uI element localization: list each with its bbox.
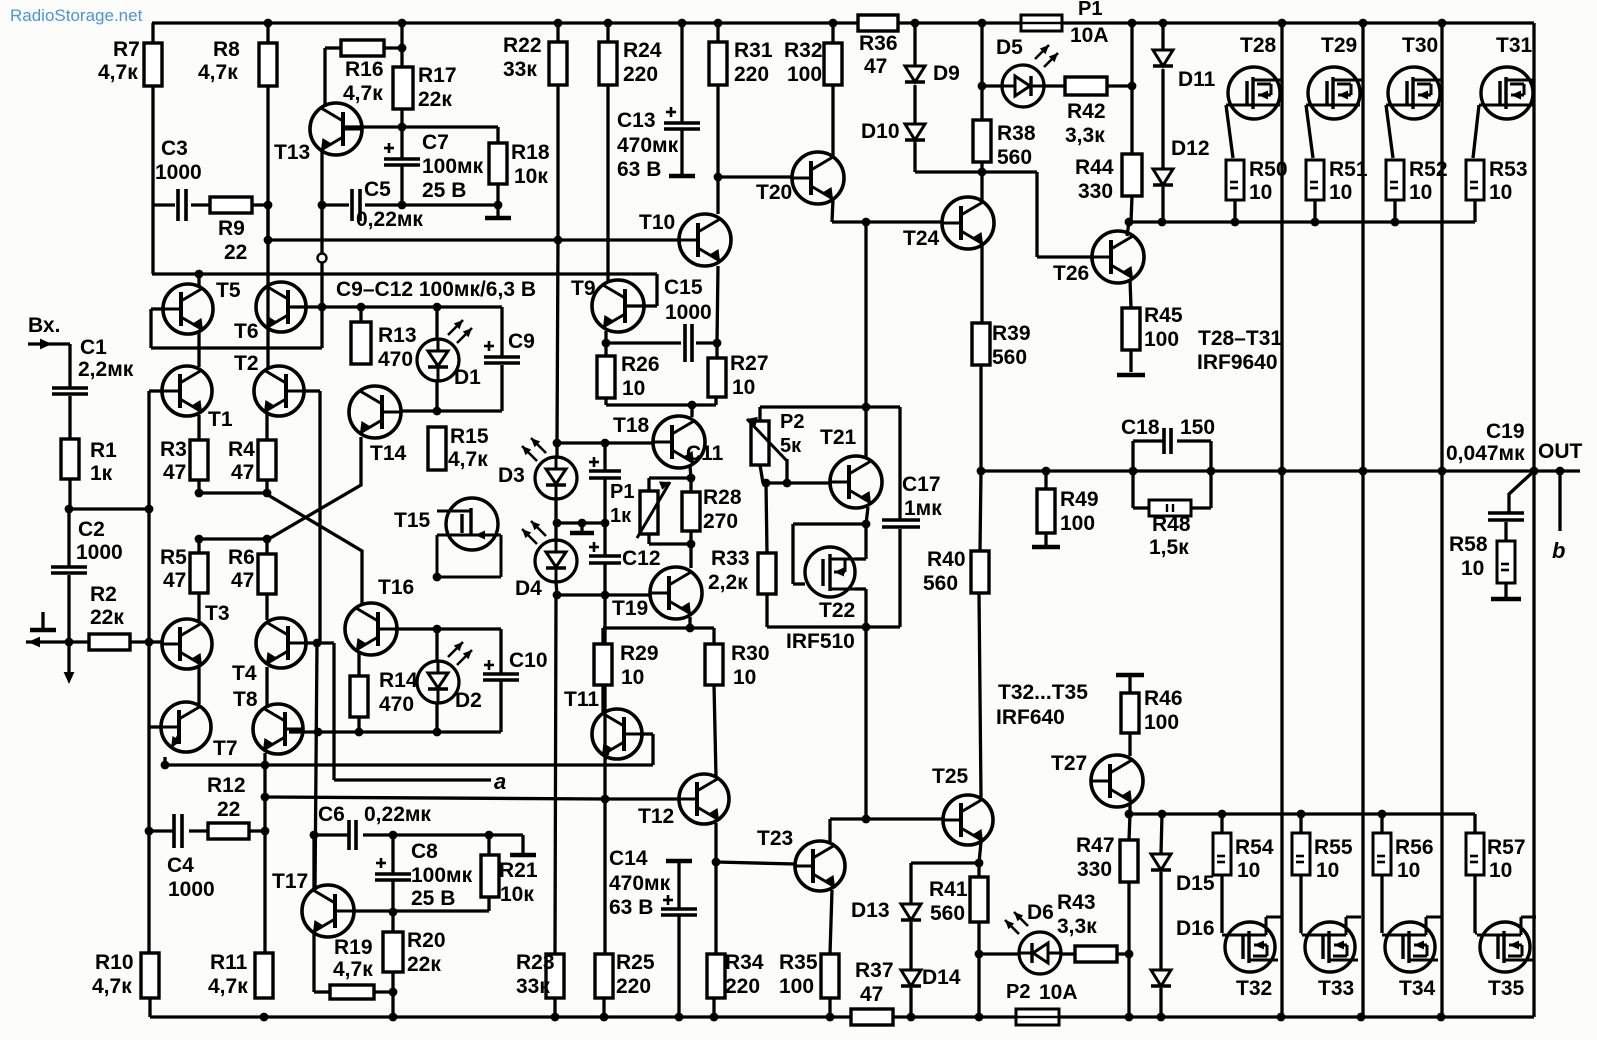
label 22 bbox=[224, 241, 247, 264]
svg-text:1000: 1000 bbox=[168, 878, 215, 901]
wire T13 emitter drop bbox=[320, 151, 323, 205]
wire R19 right lead bbox=[374, 990, 393, 993]
svg-text:T4: T4 bbox=[232, 662, 257, 685]
junction at 1162,222 bbox=[1158, 218, 1167, 227]
svg-text:R4: R4 bbox=[228, 438, 255, 461]
wire T12 base wire bbox=[605, 797, 678, 800]
label 560 bbox=[923, 572, 958, 595]
svg-text:R7: R7 bbox=[113, 38, 140, 61]
label R49 bbox=[1060, 488, 1099, 511]
svg-text:T11: T11 bbox=[564, 688, 599, 711]
wire R44 to gate node bbox=[1131, 196, 1132, 222]
wire R29 to T11 collector bbox=[601, 685, 604, 712]
label 10 bbox=[622, 377, 645, 400]
label 220 bbox=[623, 63, 658, 86]
svg-text:220: 220 bbox=[725, 975, 760, 998]
label 10 bbox=[1329, 181, 1352, 204]
wire R56 top stub bbox=[1380, 814, 1383, 833]
resistor R5 bbox=[190, 553, 208, 593]
wire R43 node to rail bbox=[1127, 954, 1130, 1017]
label T25 bbox=[932, 765, 969, 788]
transistor T24 bbox=[942, 197, 994, 249]
svg-text:T32: T32 bbox=[1236, 977, 1272, 1000]
svg-text:R50: R50 bbox=[1249, 158, 1288, 181]
svg-text:10: 10 bbox=[1249, 181, 1272, 204]
wire R34 bottom stub bbox=[712, 998, 715, 1017]
svg-text:OUT: OUT bbox=[1538, 440, 1583, 463]
wire R6 top stub bbox=[265, 539, 268, 554]
svg-text:C19: C19 bbox=[1486, 420, 1525, 443]
svg-text:2,2к: 2,2к bbox=[708, 571, 748, 594]
junction at 1395,222 bbox=[1391, 218, 1400, 227]
plus C12 bbox=[589, 542, 599, 552]
svg-text:2,2мк: 2,2мк bbox=[78, 358, 134, 381]
svg-text:63 В: 63 В bbox=[609, 896, 653, 919]
wire T2/T4 base column bbox=[318, 391, 321, 643]
wire y307 net bbox=[322, 305, 502, 308]
label 100 bbox=[1144, 711, 1179, 734]
junction at 265,831 bbox=[261, 827, 270, 836]
wire C12 top lead bbox=[603, 523, 606, 556]
label 10 bbox=[1409, 181, 1432, 204]
wire P2 pot bottom stub bbox=[760, 465, 763, 483]
label R2 bbox=[90, 583, 117, 606]
label C4 bbox=[167, 854, 194, 877]
junction at 915,23 bbox=[911, 19, 920, 28]
wire T20 emitter drop bbox=[832, 199, 833, 222]
potentiometer P2 5k bbox=[747, 417, 787, 465]
wire feedback net y797 bbox=[265, 797, 605, 799]
wire C6 row to ground corner bbox=[393, 833, 523, 836]
junction at 716,862 bbox=[712, 858, 721, 867]
label 10 bbox=[733, 666, 756, 689]
wire R21 bottom stub bbox=[487, 897, 490, 911]
wire R29 top stub bbox=[601, 628, 604, 644]
wire R51 bottom stub bbox=[1313, 200, 1316, 222]
label 3,3к bbox=[1065, 124, 1105, 147]
junction at 718,23 bbox=[714, 19, 723, 28]
junction at 393,835 bbox=[389, 831, 398, 840]
junction at 149,509 bbox=[145, 505, 154, 514]
label R15 bbox=[450, 425, 489, 448]
junction at 557,595 bbox=[553, 591, 562, 600]
wire C7 top lead bbox=[400, 127, 403, 160]
junction at 866,222 bbox=[862, 218, 871, 227]
label C1 bbox=[80, 336, 107, 359]
wire T16 base lead bbox=[397, 627, 437, 630]
label 330 bbox=[1077, 858, 1112, 881]
wire T19 emitter stub bbox=[688, 617, 691, 628]
wire gate rail left y222 bbox=[832, 220, 941, 223]
label R44 bbox=[1075, 156, 1114, 179]
transistor T18 bbox=[653, 416, 705, 468]
label C10 bbox=[509, 649, 548, 672]
capacitor C15 bbox=[685, 324, 692, 362]
wire ground stub right of R21 bbox=[521, 835, 524, 853]
svg-text:T25: T25 bbox=[932, 765, 969, 788]
wire T5 base drop bbox=[149, 309, 152, 348]
wire T17 emitter riser bbox=[312, 835, 315, 890]
wire R4 top from T2 emitter bbox=[265, 414, 268, 440]
svg-text:T2: T2 bbox=[234, 352, 259, 375]
svg-text:T6: T6 bbox=[234, 320, 259, 343]
label T34 bbox=[1399, 977, 1436, 1000]
junction at 718,177 bbox=[714, 173, 723, 182]
wire R46 top stub bbox=[1128, 677, 1131, 693]
svg-text:470: 470 bbox=[378, 348, 413, 371]
junction at 1382,814 bbox=[1378, 810, 1387, 819]
svg-text:22к: 22к bbox=[90, 606, 124, 629]
wire y343 right segment bbox=[696, 341, 717, 344]
resistor R38 bbox=[973, 120, 991, 162]
wire T26 collector stub bbox=[1127, 222, 1129, 236]
led D3 bbox=[522, 438, 577, 499]
svg-text:R1: R1 bbox=[90, 439, 117, 462]
label R52 bbox=[1409, 158, 1448, 181]
svg-text:RadioStorage.net: RadioStorage.net bbox=[10, 6, 143, 25]
label C9 bbox=[508, 330, 535, 353]
resistor R28 bbox=[682, 492, 700, 531]
led D1 bbox=[417, 320, 472, 381]
fuse P1 bbox=[1021, 15, 1062, 31]
wire C9 loop right bottom bbox=[500, 365, 503, 411]
junction at 833,23 bbox=[829, 19, 838, 28]
label R43 bbox=[1057, 891, 1096, 914]
label R47 bbox=[1076, 834, 1115, 857]
ground under R45 bbox=[1117, 373, 1145, 378]
svg-text:10: 10 bbox=[1237, 859, 1260, 882]
label R16 bbox=[345, 58, 384, 81]
label 100 bbox=[779, 975, 814, 998]
resistor R10 bbox=[141, 953, 159, 998]
resistor R15 bbox=[428, 427, 446, 470]
wire D10 to y172 bbox=[913, 141, 916, 172]
capacitor C8 bbox=[375, 874, 411, 880]
svg-text:R44: R44 bbox=[1075, 156, 1114, 179]
svg-text:R2: R2 bbox=[90, 583, 117, 606]
svg-text:R23: R23 bbox=[516, 951, 555, 974]
wire ground node down arrow bbox=[67, 642, 70, 680]
svg-text:C12: C12 bbox=[622, 547, 661, 570]
label R57 bbox=[1487, 836, 1526, 859]
wire R30 top stub bbox=[712, 628, 715, 644]
svg-text:a: a bbox=[494, 769, 506, 794]
wire T1 emitter to R3 bbox=[197, 415, 200, 440]
svg-text:D5: D5 bbox=[996, 36, 1023, 59]
wire output b stub bbox=[1558, 471, 1561, 531]
svg-text:R10: R10 bbox=[95, 951, 134, 974]
junction at 679,1017 bbox=[675, 1013, 684, 1022]
capacitor C19 bbox=[1488, 513, 1524, 520]
wire x605 T11 emitter column bbox=[603, 595, 606, 799]
svg-text:22к: 22к bbox=[418, 88, 452, 111]
led D2 bbox=[417, 642, 472, 703]
ground at D3/D4 midpoint bbox=[570, 531, 594, 536]
label 560 bbox=[930, 902, 965, 925]
wire R21 top stub bbox=[487, 835, 490, 855]
junction at 1301,814 bbox=[1297, 810, 1306, 819]
junction at 558,23 bbox=[554, 19, 563, 28]
junction at 402,205 bbox=[398, 201, 407, 210]
wire T2 base lead bbox=[305, 389, 320, 392]
wire x866 to T25 base node bbox=[864, 627, 867, 819]
junction at 979,1017 bbox=[975, 1013, 984, 1022]
wire T20 base wire bbox=[718, 175, 792, 178]
wire C9 loop bottom bbox=[437, 409, 502, 412]
svg-text:220: 220 bbox=[616, 975, 651, 998]
junction at 322,205 bbox=[318, 201, 327, 210]
wire T26 base drop bbox=[1035, 172, 1038, 257]
resistor R25 bbox=[595, 954, 613, 998]
svg-text:10: 10 bbox=[1489, 181, 1512, 204]
wire T18 base wire y443 bbox=[557, 441, 653, 444]
svg-text:220: 220 bbox=[623, 63, 658, 86]
label 10 bbox=[1489, 181, 1512, 204]
label T19 bbox=[612, 597, 648, 620]
label T32...T35 bbox=[998, 681, 1088, 704]
transistor T19 bbox=[650, 567, 702, 619]
resistor R35 bbox=[821, 954, 839, 998]
svg-text:10: 10 bbox=[1329, 181, 1352, 204]
transistor T21 bbox=[830, 456, 882, 508]
ground arrow down bbox=[64, 672, 75, 684]
svg-text:150: 150 bbox=[1180, 416, 1215, 439]
wire T7 emitter stub bbox=[163, 757, 166, 765]
wire x556 long drop bbox=[555, 595, 556, 954]
junction at 1361,1017 bbox=[1357, 1013, 1366, 1022]
label R5 bbox=[160, 546, 187, 569]
label R26 bbox=[621, 353, 660, 376]
label 33к bbox=[516, 975, 550, 998]
junction at 558,240 bbox=[554, 236, 563, 245]
wire D9 to D10 bbox=[913, 85, 916, 124]
label 25 В bbox=[422, 179, 466, 202]
wire C8 bottom lead bbox=[391, 881, 394, 911]
label R30 bbox=[731, 642, 770, 665]
svg-text:1,5к: 1,5к bbox=[1149, 536, 1189, 559]
wire T9 emitter stub bbox=[604, 331, 607, 343]
junction at 402,48 bbox=[398, 44, 407, 53]
transistor T9 bbox=[592, 280, 644, 332]
mosfet T30 bbox=[1386, 67, 1442, 119]
transistor T25 bbox=[943, 795, 993, 845]
wire base column x149 upper bbox=[147, 391, 150, 509]
wire bottom negative rail bbox=[150, 1015, 1534, 1018]
mosfet T35 bbox=[1477, 917, 1536, 972]
plus C8 bbox=[376, 858, 386, 868]
svg-text:R18: R18 bbox=[511, 141, 550, 164]
svg-text:22: 22 bbox=[224, 241, 247, 264]
label T27 bbox=[1051, 752, 1087, 775]
svg-text:33к: 33к bbox=[516, 975, 550, 998]
svg-text:R29: R29 bbox=[620, 642, 659, 665]
label 470 bbox=[379, 693, 414, 716]
wire D1 top lead bbox=[435, 307, 438, 339]
label T13 bbox=[274, 141, 310, 164]
resistor R57 bbox=[1466, 833, 1484, 875]
wire R14 bottom stub bbox=[357, 717, 360, 732]
wire R46 to T27 collector bbox=[1128, 733, 1131, 756]
junction at 830,1017 bbox=[826, 1013, 835, 1022]
resistor R1 bbox=[61, 439, 79, 479]
transistor T5 bbox=[163, 284, 213, 334]
svg-text:R39: R39 bbox=[992, 322, 1031, 345]
wire base column to R10 bbox=[147, 831, 150, 953]
wire R49 ground stub bbox=[1044, 533, 1047, 545]
svg-text:22к: 22к bbox=[407, 953, 441, 976]
label T22 bbox=[819, 599, 855, 622]
label R7 bbox=[113, 38, 140, 61]
wire x866 from gate rail bbox=[864, 222, 867, 407]
label 100 bbox=[787, 63, 822, 86]
label T21 bbox=[820, 426, 857, 449]
wire T26 emitter to R45 bbox=[1130, 279, 1131, 308]
svg-text:b: b bbox=[1552, 538, 1565, 563]
zener D13 bbox=[901, 904, 921, 920]
label 10A bbox=[1070, 24, 1109, 47]
label 2,2к bbox=[708, 571, 748, 594]
wire y274 net bbox=[152, 272, 657, 275]
label T2 bbox=[234, 352, 259, 375]
label T6 bbox=[234, 320, 259, 343]
label 470мк bbox=[609, 872, 671, 895]
wire R45 ground stub bbox=[1129, 350, 1132, 372]
svg-text:4,7к: 4,7к bbox=[198, 61, 238, 84]
label D12 bbox=[1171, 137, 1210, 160]
junction at 1363,471 bbox=[1359, 467, 1368, 476]
ground symbol near input bbox=[30, 628, 56, 633]
label R1 bbox=[90, 439, 117, 462]
wire P2 wiper drop bbox=[785, 459, 788, 483]
svg-text:IRF510: IRF510 bbox=[786, 630, 855, 653]
wire C7 node to R18 node bbox=[402, 203, 498, 206]
resistor R37 bbox=[851, 1009, 893, 1025]
wire R31 top stub bbox=[716, 23, 719, 42]
label 10 bbox=[1397, 859, 1420, 882]
svg-text:100мк: 100мк bbox=[411, 864, 473, 887]
transistor T20 bbox=[792, 152, 844, 204]
svg-text:T9: T9 bbox=[571, 277, 596, 300]
svg-text:63 В: 63 В bbox=[617, 158, 661, 181]
wire T32 gate lead bbox=[1220, 875, 1223, 933]
label R55 bbox=[1314, 836, 1353, 859]
svg-text:T28: T28 bbox=[1240, 34, 1277, 57]
svg-text:47: 47 bbox=[163, 569, 186, 592]
plus C10 bbox=[484, 660, 494, 670]
svg-text:1к: 1к bbox=[610, 505, 632, 527]
label R39 bbox=[992, 322, 1031, 345]
junction at 1441,1017 bbox=[1437, 1013, 1446, 1022]
junction at 361,307 bbox=[357, 303, 366, 312]
wire D1 bottom lead bbox=[435, 381, 438, 411]
junction at 1222,814 bbox=[1218, 810, 1227, 819]
svg-text:C13: C13 bbox=[617, 109, 656, 132]
label R31 bbox=[734, 39, 773, 62]
svg-text:1к: 1к bbox=[90, 462, 113, 485]
svg-text:R57: R57 bbox=[1487, 836, 1526, 859]
wire x1132 rail to R42 node bbox=[1130, 23, 1133, 86]
capacitor C10 bbox=[483, 674, 519, 680]
svg-text:100: 100 bbox=[1060, 512, 1095, 535]
svg-text:D13: D13 bbox=[851, 899, 890, 922]
wire R38 to T24 node bbox=[980, 162, 983, 172]
resistor R49 bbox=[1037, 489, 1055, 533]
wire R50 bottom stub bbox=[1233, 200, 1236, 222]
wire R43 to R47 column bbox=[1117, 952, 1129, 955]
label R14 bbox=[379, 669, 418, 692]
svg-text:330: 330 bbox=[1078, 180, 1113, 203]
svg-text:R38: R38 bbox=[997, 122, 1036, 145]
wire C8 top lead bbox=[391, 835, 394, 873]
wire mid node to D4 bbox=[554, 523, 557, 540]
wire R18 bottom to y205 bbox=[496, 184, 499, 205]
wire T22 gate loop left bbox=[791, 524, 794, 584]
label D10 bbox=[861, 120, 900, 143]
junction at 1534,471 bbox=[1530, 467, 1539, 476]
resistor R32 bbox=[824, 43, 842, 85]
node label b bbox=[1552, 538, 1565, 563]
svg-text:4,7к: 4,7к bbox=[448, 448, 488, 471]
label R36 bbox=[859, 32, 898, 55]
svg-text:T16: T16 bbox=[378, 576, 414, 599]
label R56 bbox=[1395, 836, 1434, 859]
label T26 bbox=[1053, 262, 1089, 285]
wire R58 ground stub bbox=[1504, 583, 1507, 597]
plus C13 bbox=[666, 107, 676, 117]
label D9 bbox=[933, 62, 960, 85]
svg-text:R26: R26 bbox=[621, 353, 660, 376]
svg-text:R21: R21 bbox=[499, 859, 538, 882]
wire y240 T10 base net bbox=[268, 238, 679, 241]
diode D9 bbox=[905, 66, 925, 82]
label 100мк bbox=[411, 864, 473, 887]
wire x982 rail to D5 node bbox=[980, 23, 983, 65]
svg-text:R15: R15 bbox=[450, 425, 489, 448]
wire C3 to R9 bbox=[191, 203, 210, 206]
junction at 555,1017 bbox=[551, 1013, 560, 1022]
transistor T12 bbox=[679, 774, 729, 824]
label 0,047мк bbox=[1446, 442, 1525, 465]
label C7 bbox=[422, 131, 449, 154]
label R21 bbox=[499, 859, 538, 882]
svg-text:10к: 10к bbox=[514, 165, 548, 188]
label T28–T31 bbox=[1198, 327, 1282, 350]
resistor R41 bbox=[970, 877, 988, 922]
resistor R58 bbox=[1497, 541, 1515, 583]
svg-text:33к: 33к bbox=[503, 58, 537, 81]
wire x322 emitter column bbox=[320, 205, 323, 253]
wire R53 bottom stub bbox=[1473, 200, 1476, 222]
svg-text:R14: R14 bbox=[379, 669, 418, 692]
svg-text:D2: D2 bbox=[455, 689, 482, 712]
junction at 69,642 bbox=[65, 638, 74, 647]
junction at 979,863 bbox=[975, 859, 984, 868]
transistor T16 bbox=[345, 603, 397, 655]
junction at 1315,222 bbox=[1311, 218, 1320, 227]
capacitor C6 bbox=[349, 820, 356, 850]
resistor R39 bbox=[972, 323, 990, 365]
resistor R42 bbox=[1065, 77, 1107, 95]
junction at 393,992 bbox=[389, 988, 398, 997]
transistor T6 bbox=[256, 282, 306, 332]
svg-text:4,7к: 4,7к bbox=[343, 82, 383, 105]
capacitor C17 bbox=[882, 520, 920, 527]
transistor T10 bbox=[679, 214, 731, 266]
wire R20 top stub bbox=[391, 911, 394, 932]
resistor R3 bbox=[190, 440, 208, 480]
resistor R29 bbox=[594, 644, 612, 685]
svg-text:C18: C18 bbox=[1121, 416, 1160, 439]
